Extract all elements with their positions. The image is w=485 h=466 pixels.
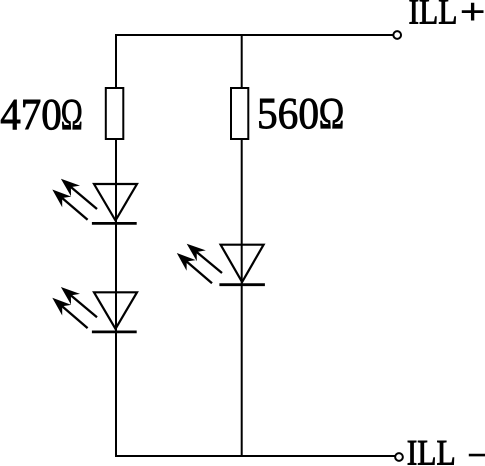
arrow (light emission) — [68, 293, 97, 317]
label ILL+ — [409, 0, 485, 32]
svg-text:+: + — [460, 0, 485, 32]
svg-text:470: 470 — [0, 90, 62, 139]
arrow (light emission) — [194, 250, 222, 273]
arrow (light emission) — [184, 259, 212, 283]
arrow (light emission) — [60, 304, 88, 328]
svg-text:−: − — [467, 435, 485, 466]
resistor 560 ohm (body) — [231, 88, 248, 139]
wire: top rail from branches to ILL+ terminal — [115, 34, 393, 36]
LED D3 (middle branch) — [177, 244, 265, 285]
arrow (light emission) — [68, 185, 97, 209]
value label 560 ohm — [257, 89, 344, 138]
value label 470 ohm — [0, 90, 83, 139]
terminal ILL- (open circle) — [395, 453, 403, 461]
wire: middle branch vertical — [241, 35, 243, 456]
svg-text:560: 560 — [257, 89, 319, 138]
label ILL- — [407, 433, 485, 466]
wire: bottom rail to ILL- terminal — [115, 455, 395, 457]
arrow (light emission) — [60, 196, 88, 220]
svg-text:Ω: Ω — [61, 90, 83, 139]
svg-text:ILL: ILL — [407, 433, 456, 466]
resistor 470 ohm (body) — [106, 88, 124, 139]
terminal ILL+ (open circle) — [393, 31, 401, 39]
LED D2 (lower left branch) — [52, 287, 137, 332]
wire: left branch vertical — [115, 35, 117, 456]
svg-text:ILL: ILL — [409, 0, 458, 32]
LED D1 (upper left branch) — [52, 179, 137, 224]
svg-text:Ω: Ω — [319, 89, 345, 138]
